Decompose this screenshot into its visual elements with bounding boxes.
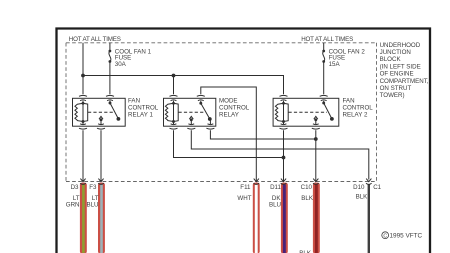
mode relay switch blade [201,101,210,119]
wire D10 BLK (plain) [356,184,369,253]
relay2 switch blade [324,101,332,119]
svg-text:FAN: FAN [343,97,355,104]
svg-text:(IN LEFT SIDE: (IN LEFT SIDE [380,63,421,70]
svg-text:HOT AT ALL TIMES: HOT AT ALL TIMES [301,36,353,43]
wire: hot feed at x83 from top edge to bus [82,43,84,95]
relay1 switch blade [110,101,118,119]
mode relay coil [165,101,178,124]
svg-text:RELAY 1: RELAY 1 [128,111,153,118]
wire D3 LT GRN (highlighted) [66,183,87,253]
junction block dashed box [66,43,377,182]
wire: power bus [83,76,284,95]
wire: mode coil to D11 junction (H3) [174,130,285,157]
terminal C10 [313,179,319,185]
svg-text:WHT: WHT [237,195,251,202]
wire: relay2 contact to C10 [315,130,317,181]
label UNDERHOOD JUNCTION BLOCK [380,42,429,99]
svg-text:D10: D10 [353,184,365,191]
wire: relay1 coil to D3 [82,130,84,181]
svg-text:D3: D3 [71,184,79,191]
terminal F11 [254,179,260,185]
wire: mode relay coil feed stub [173,76,175,95]
svg-text:GRN: GRN [66,202,80,209]
svg-text:FAN: FAN [128,97,140,104]
node: bus/mode coil junction [172,74,176,78]
wire C10 BLK (highlighted) [299,183,320,253]
mode relay blade output stub [209,119,211,124]
svg-text:BLK: BLK [356,194,369,201]
wire F3 LT BLU (highlighted) [86,183,104,253]
svg-text:RELAY: RELAY [219,111,239,118]
svg-text:1995 VFTC: 1995 VFTC [390,233,423,240]
svg-text:BLU: BLU [269,202,281,209]
svg-text:D11: D11 [270,184,281,191]
wire F11 WHT (highlighted) [237,183,259,253]
svg-text:BLOCK: BLOCK [380,56,402,63]
svg-text:BLK: BLK [301,195,314,202]
mode relay contact post [189,116,193,124]
copyright [382,232,423,240]
node: bus junction at x83 [81,74,85,78]
wire: relay1 contact to F3 [100,130,102,181]
relay1 mechanical link (dashed) [88,111,114,113]
relay FAN CONTROL RELAY 1 [73,95,159,129]
wire: mode relay switch top to F11 [201,87,256,182]
relay2 coil [275,101,288,124]
terminal D10 [366,179,372,185]
svg-text:C: C [383,233,387,239]
mode relay terminals [170,95,215,129]
svg-text:BLU: BLU [86,202,98,209]
svg-text:OF ENGINE: OF ENGINE [380,71,414,78]
fuse COOL FAN 2 15A [322,43,365,95]
svg-text:CONTROL: CONTROL [343,104,374,111]
relay2 terminals [280,95,328,129]
svg-text:ON STRUT: ON STRUT [380,85,412,92]
relay2 mechanical link (dashed) [289,111,328,113]
svg-text:30A: 30A [115,61,127,68]
terminal D3 [80,179,86,185]
node: C10 junction [314,137,318,141]
terminal F3 [98,179,104,185]
terminal D11 [281,179,287,185]
wire: mode blade output to C10 junction (H1) [210,130,316,139]
fuse COOL FAN 1 30A [109,43,152,95]
relay1 coil [75,101,88,124]
relay MODE CONTROL RELAY [164,95,250,129]
svg-text:CONTROL: CONTROL [219,104,250,111]
relay1 terminals [79,95,114,129]
relay1 contact post [99,116,103,124]
svg-text:F3: F3 [89,184,97,191]
wire D11 DK BLU (highlighted) [269,183,288,253]
svg-text:15A: 15A [329,61,341,68]
svg-text:JUNCTION: JUNCTION [380,49,411,56]
svg-text:CONTROL: CONTROL [128,104,159,111]
svg-text:COMPARTMENT,: COMPARTMENT, [380,78,429,85]
node: D11 junction [282,156,286,160]
mode relay mechanical link (dashed) [179,111,205,113]
wire: relay2 coil to D11 [283,130,285,181]
svg-text:HOT AT ALL TIMES: HOT AT ALL TIMES [69,36,121,43]
svg-text:UNDERHOOD: UNDERHOOD [380,42,421,49]
svg-text:C1: C1 [373,184,381,191]
wire: mode contact to D10 (H2) [191,130,368,179]
svg-text:F11: F11 [240,184,251,191]
svg-text:TOWER): TOWER) [380,92,405,99]
relay2 contact post [314,116,318,124]
svg-text:C10: C10 [301,184,313,191]
relay FAN CONTROL RELAY 2 [273,95,373,129]
svg-text:RELAY 2: RELAY 2 [343,111,368,118]
svg-text:MODE: MODE [219,97,238,104]
